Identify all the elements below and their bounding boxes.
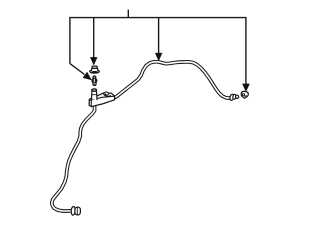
arrow to hose middle (155, 53, 162, 60)
charge port cylinder (92, 89, 98, 100)
bolt boss on block (104, 92, 111, 96)
upper hose end collar (229, 94, 238, 101)
joint connector (right, under arrow) (241, 91, 248, 98)
lower tube end fitting (71, 206, 80, 215)
arrow to valve cap (90, 57, 97, 64)
lower tube (block to bottom-left) (52, 105, 95, 211)
upper hose (block to right end) (112, 62, 230, 99)
callout bracket (item 1 leader) (70, 10, 246, 85)
valve core (92, 76, 97, 85)
arrow to tube (diagonal) (83, 72, 91, 80)
manifold block (89, 93, 114, 107)
arrow to joint (243, 84, 250, 91)
valve cap (bell shaped) (90, 66, 100, 73)
